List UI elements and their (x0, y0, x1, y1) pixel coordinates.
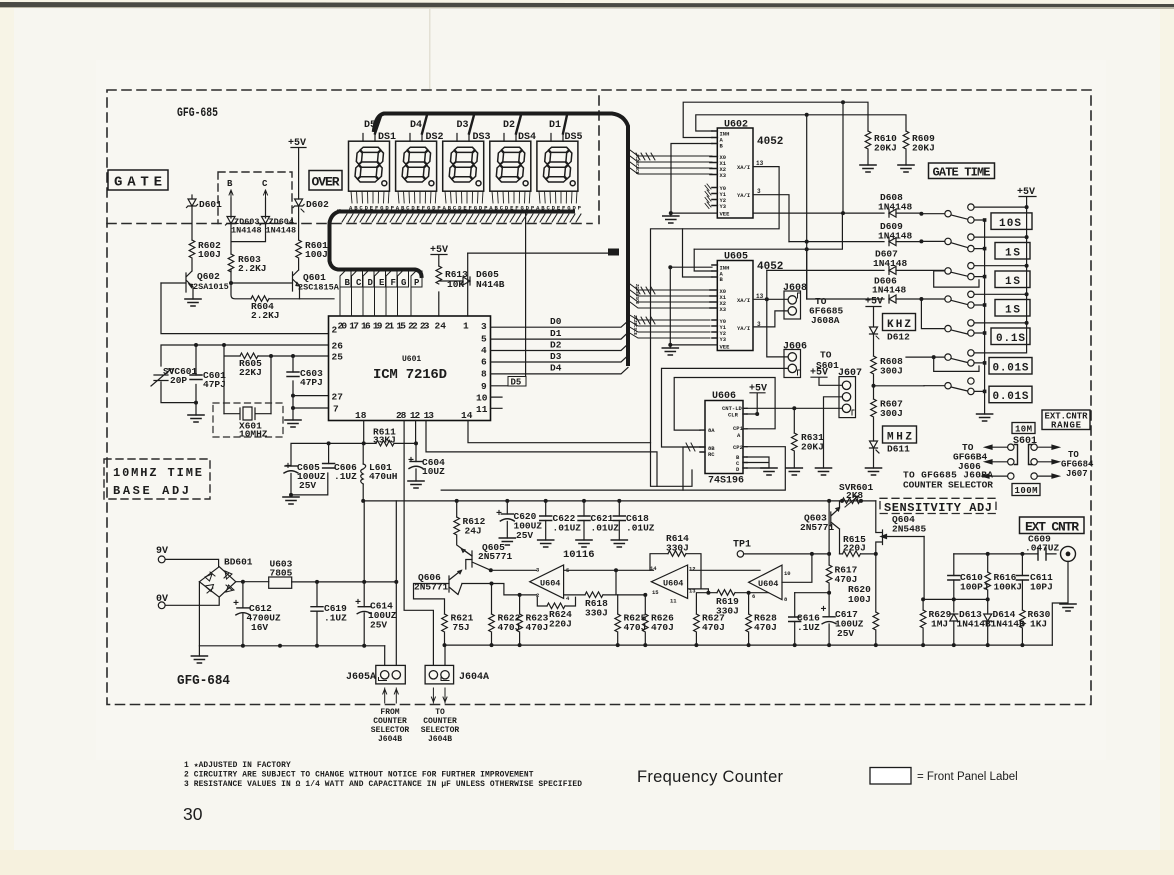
svg-text:D611: D611 (887, 444, 910, 455)
svg-text:1: 1 (463, 321, 469, 332)
svg-text:2.2KJ: 2.2KJ (238, 263, 267, 274)
switch 1S row (919, 234, 974, 252)
svg-text:4052: 4052 (757, 261, 783, 273)
svg-text:1S: 1S (1005, 247, 1020, 259)
svg-text:10S: 10S (999, 218, 1021, 230)
svg-text:GFG-685: GFG-685 (177, 106, 218, 120)
svg-text:TO: TO (435, 708, 445, 717)
svg-text:= Front Panel Label: = Front Panel Label (917, 771, 1018, 783)
resistor R631 (792, 408, 825, 468)
digit segment pin fans (351, 191, 577, 203)
wire into U604c upper (690, 569, 760, 571)
+5V to J607 pin1 (810, 368, 842, 386)
svg-text:300J: 300J (880, 366, 903, 377)
svg-text:4: 4 (481, 345, 487, 356)
svg-text:24J: 24J (465, 526, 482, 537)
label TO 6F6685 J608A (809, 296, 844, 326)
diode D614 (984, 599, 1025, 645)
svg-text:2N5485: 2N5485 (892, 524, 927, 535)
svg-text:RC: RC (708, 451, 715, 458)
svg-text:GFG684: GFG684 (1061, 460, 1094, 470)
svg-text:D3: D3 (550, 351, 562, 362)
wire U602 B pin from below (671, 144, 712, 214)
svg-text:25V: 25V (299, 480, 316, 491)
wire +5V to pin24 with R613 (430, 245, 463, 316)
svg-text:11: 11 (476, 404, 488, 415)
svg-text:DS4: DS4 (518, 132, 536, 143)
svg-text:FROM: FROM (380, 708, 399, 717)
svg-text:D4: D4 (410, 120, 422, 131)
resistor R623 (517, 593, 549, 645)
svg-text:KHZ: KHZ (887, 319, 911, 331)
wire U605 A pin (694, 249, 712, 271)
svg-text:24: 24 (435, 321, 447, 332)
segment bus (thick bottom) (330, 212, 574, 277)
svg-text:2.2KJ: 2.2KJ (251, 310, 280, 321)
wire B/C verticals (231, 198, 266, 299)
svg-text:X3: X3 (720, 172, 727, 179)
bus fan to U605 Y inputs (628, 314, 710, 338)
svg-text:U604: U604 (758, 579, 778, 589)
svg-text:25V: 25V (837, 628, 854, 639)
svg-text:20KJ: 20KJ (874, 143, 897, 154)
svg-text:300J: 300J (880, 408, 903, 419)
resistor R618 (564, 570, 646, 618)
svg-text:D601: D601 (199, 199, 222, 210)
transistor Q606 (414, 571, 537, 615)
transistor Q601 (229, 259, 340, 299)
svg-text:470uH: 470uH (369, 471, 398, 482)
svg-text:2SA1015: 2SA1015 (193, 282, 229, 292)
svg-text:3: 3 (481, 321, 487, 332)
svg-text:.1UZ: .1UZ (797, 622, 820, 633)
svg-text:U604: U604 (663, 579, 683, 589)
front panel label 10S (991, 213, 1032, 230)
svg-text:33KJ: 33KJ (373, 435, 396, 446)
svg-text:MHZ: MHZ (887, 432, 912, 444)
svg-text:0.1S: 0.1S (996, 333, 1025, 345)
svg-text:74S196: 74S196 (708, 476, 744, 487)
display digit DS5 (537, 132, 583, 191)
resistor R605 (239, 353, 262, 378)
front panel label KHZ (883, 314, 916, 332)
svg-text:20KJ: 20KJ (912, 143, 935, 154)
diode D605 (463, 269, 505, 290)
capacitor C616 (789, 591, 831, 645)
hatch marks U602 Y pins (705, 184, 711, 209)
svg-text:J607: J607 (838, 368, 862, 379)
svg-text:J604B: J604B (378, 735, 402, 744)
capacitor C605 (284, 462, 328, 497)
op-amp U604 a (530, 565, 570, 602)
resistor R628 (746, 591, 777, 645)
crystal X601 (213, 403, 283, 440)
EXT CNTR top wire (954, 553, 1023, 555)
wire U605 INH/VEE (670, 267, 717, 348)
svg-text:.1UZ: .1UZ (324, 613, 347, 624)
svg-text:XA/I: XA/I (737, 297, 750, 304)
svg-text:27: 27 (332, 392, 344, 403)
wire R608/R607 node to switch row (874, 385, 925, 387)
svg-text:25V: 25V (370, 620, 387, 631)
label TO GFG685 J60BA COUNTER SELECTOR (903, 470, 993, 491)
diode D611 (870, 441, 911, 468)
svg-text:D612: D612 (887, 332, 910, 343)
svg-text:15: 15 (652, 589, 659, 596)
front panel label 100M (1012, 484, 1040, 497)
op IC U601 ICM 7216D (329, 316, 491, 421)
+5V supply over D612 (865, 297, 883, 327)
svg-text:RANGE: RANGE (1051, 421, 1082, 431)
ground symbol supply (191, 656, 207, 663)
svg-text:TO: TO (820, 350, 832, 361)
zener ZD604 (260, 217, 296, 236)
svg-text:7: 7 (333, 404, 339, 415)
svg-text:D0: D0 (550, 316, 562, 327)
svg-text:J607: J607 (1066, 469, 1088, 479)
wire +5 feed up from C614 node (363, 501, 365, 582)
svg-text:SELECTOR: SELECTOR (371, 726, 410, 735)
B/C sense dashed box (218, 172, 292, 224)
transistor Q602 (161, 259, 229, 299)
svg-text:470J: 470J (702, 622, 725, 633)
wire U604c output up to TP1 line (782, 554, 812, 582)
resistor R619 (716, 590, 769, 617)
wire long rail y490 (441, 489, 683, 491)
svg-text:D1: D1 (550, 328, 562, 339)
svg-text:20KJ: 20KJ (801, 442, 824, 453)
node D5 boxed (491, 213, 527, 388)
svg-text:1S: 1S (1005, 304, 1020, 316)
svg-text:11: 11 (670, 598, 677, 605)
svg-text:B: B (227, 179, 233, 189)
resistor R617 (826, 554, 857, 617)
svg-text:J608: J608 (783, 283, 807, 294)
svg-text:10116: 10116 (563, 549, 595, 561)
wire pin18 to R611 (363, 421, 365, 444)
wire rail y114.8 (696, 115, 906, 131)
svg-text:U604: U604 (540, 579, 560, 589)
switch 0.1S row (921, 299, 974, 336)
wire J607 pin2 to ground (824, 397, 843, 468)
svg-text:330J: 330J (666, 543, 689, 554)
svg-text:XA/I: XA/I (737, 164, 750, 171)
svg-text:Frequency Counter: Frequency Counter (637, 768, 784, 786)
10MHZ TIME BASE ADJ dashed box (104, 459, 210, 499)
connector J608 (783, 283, 807, 319)
svg-text:TO: TO (1068, 450, 1079, 460)
wire y249.2 row (694, 213, 842, 249)
svg-text:D4: D4 (550, 363, 562, 374)
capacitor C612 (233, 582, 281, 646)
legend front panel box (870, 768, 911, 785)
diode D613 (950, 599, 991, 645)
diode D612 (870, 327, 911, 356)
svg-text:D602: D602 (306, 199, 329, 210)
svg-text:10MHZ TIME: 10MHZ TIME (113, 466, 202, 480)
J604A arrows down (431, 688, 447, 703)
supply ground rail (199, 646, 384, 656)
svg-text:1N4148: 1N4148 (873, 258, 908, 269)
BNC connector EXT CNTR (1052, 546, 1075, 645)
svg-text:9: 9 (481, 381, 487, 392)
svg-text:Y3: Y3 (720, 336, 727, 343)
svg-text:CP2: CP2 (733, 444, 743, 451)
EXT CNTR mid wire (923, 598, 988, 600)
svg-text:28 12 13: 28 12 13 (396, 410, 434, 421)
switch 0.01S row b (924, 378, 974, 395)
resistor R626 (643, 593, 675, 645)
svg-text:U605: U605 (724, 252, 748, 263)
svg-text:10M: 10M (1015, 425, 1032, 435)
resistor R621 (442, 613, 474, 646)
ground under C604 (408, 481, 424, 488)
svg-text:VEE: VEE (720, 344, 731, 351)
svg-text:DS5: DS5 (565, 132, 583, 143)
svg-text:20P: 20P (170, 375, 187, 386)
notes (184, 761, 582, 789)
wire U602 YA/I output (753, 195, 789, 242)
switch S 10S row (919, 204, 974, 223)
wire pin28 down (404, 421, 433, 666)
op IC U602 4052 (710, 120, 783, 219)
svg-text:YA/I: YA/I (737, 325, 750, 332)
wire J606 pin2 to 74S196 (662, 368, 789, 447)
wire pin25 net / R605 (224, 345, 329, 414)
svg-text:5: 5 (481, 334, 487, 345)
svg-text:C: C (356, 278, 362, 288)
svg-text:470J: 470J (498, 622, 521, 633)
GFG-685 module boundary (dashed) (107, 90, 1091, 705)
wire J604A pin2 to amp rail (444, 645, 446, 665)
connector J605A (346, 665, 405, 684)
svg-text:3: 3 (757, 188, 761, 195)
inductor L601 (361, 462, 398, 503)
svg-text:22KJ: 22KJ (239, 367, 262, 378)
svg-text:9V: 9V (156, 546, 168, 557)
capacitor C617 (821, 605, 864, 645)
display section boundary (dashed) (107, 96, 599, 224)
amp bottom rail (445, 644, 1053, 646)
transistor Q604 JFET (874, 501, 927, 556)
J605A arrows down (383, 688, 399, 703)
op IC U606 (700, 391, 747, 487)
svg-text:100M: 100M (1015, 486, 1038, 496)
svg-text:100KJ: 100KJ (994, 582, 1023, 593)
U606 loop 8B-CP2 via bottom (683, 447, 785, 490)
wire U605 XA/I output to J608/J606 (753, 270, 792, 357)
svg-text:TP1: TP1 (733, 540, 751, 551)
svg-text:8A: 8A (708, 427, 715, 434)
wire Q605 emitter node (491, 569, 537, 571)
diode D608 (753, 192, 921, 217)
feedback resistor R624 (537, 597, 575, 629)
svg-text:1MJ: 1MJ (931, 619, 948, 630)
segment letter row (A-G,DP marks) (349, 205, 579, 210)
diode D602 (293, 199, 329, 240)
svg-text:J604B: J604B (428, 735, 452, 744)
wire pin13 down right (426, 421, 657, 487)
ground under Q602 (185, 299, 201, 306)
svg-text:6: 6 (752, 593, 755, 600)
resistor R610 (865, 131, 897, 165)
front panel label EXT CNTR (1020, 517, 1085, 535)
wire top rail y102 (683, 102, 868, 137)
svg-text:SELECTOR: SELECTOR (421, 726, 460, 735)
svg-text:1 ★ADJUSTED IN FACTORY: 1 ★ADJUSTED IN FACTORY (184, 761, 291, 770)
svg-text:18: 18 (355, 410, 367, 421)
diode D607 (767, 249, 948, 275)
wire Q601 emitter stub (300, 298, 335, 300)
label TO GFG6B4 J606 (953, 442, 988, 472)
diode D609 (789, 221, 921, 246)
ground under switch bank (977, 414, 993, 421)
svg-text:U602: U602 (724, 120, 748, 131)
scan crease line (429, 9, 431, 89)
svg-text:D3: D3 (457, 120, 469, 131)
wire C603 to pins 27/7 and ground (293, 381, 329, 420)
svg-text:N414B: N414B (476, 279, 505, 290)
svg-text:F: F (391, 278, 396, 288)
svg-text:COUNTER SELECTOR: COUNTER SELECTOR (903, 480, 993, 491)
svg-text:D2: D2 (503, 120, 515, 131)
svg-text:10: 10 (476, 393, 488, 404)
svg-text:G: G (401, 278, 406, 288)
capacitor C614 (355, 582, 397, 646)
test point TP1 (733, 540, 829, 558)
pin10/11 stubs (491, 397, 503, 408)
bridge rectifier BD601 (199, 557, 268, 646)
svg-text:Y3: Y3 (720, 203, 727, 210)
display digit DS3 (443, 132, 491, 191)
connector J606 (783, 342, 807, 378)
svg-text:14: 14 (461, 410, 473, 421)
digit select labels D5 D4 D3 D2 D1 (364, 120, 561, 131)
svg-text:.01UZ: .01UZ (553, 523, 582, 534)
hatch under segment bus (342, 214, 581, 222)
wire U605 B pin (683, 229, 713, 277)
svg-text:U601: U601 (402, 355, 421, 364)
resistor R609 (903, 131, 935, 165)
svg-text:1N414B: 1N414B (957, 619, 992, 630)
filter top rail (291, 443, 416, 466)
front panel label 0.01S b (989, 386, 1032, 403)
+5V rail for gate time switches (974, 187, 1036, 353)
resistor R602 (189, 240, 221, 260)
GATE front panel label (108, 170, 168, 191)
wire R604 to Q601 base (270, 298, 300, 300)
svg-text:.01UZ: .01UZ (626, 523, 655, 534)
svg-text:BD601: BD601 (224, 557, 253, 568)
ground under U605 VEE (662, 348, 678, 355)
digit select stubs from top bus (375, 115, 567, 134)
scan top edge bar (0, 2, 1174, 7)
svg-text:100J: 100J (848, 594, 871, 605)
svg-text:10K: 10K (447, 279, 464, 290)
svg-text:26: 26 (332, 341, 344, 352)
ground under R631 (786, 468, 802, 475)
display digit DS4 (490, 132, 536, 191)
wire J605A pin2 up (395, 501, 397, 666)
svg-text:0V: 0V (156, 594, 168, 605)
svg-text:.01UZ: .01UZ (591, 523, 620, 534)
connector J604A (425, 665, 489, 684)
capacitor C606 (323, 462, 358, 482)
svg-text:U606: U606 (712, 391, 736, 402)
svg-text:GFG-684: GFG-684 (177, 673, 230, 689)
sensitivity adj dashed box (880, 498, 996, 515)
wire U605 YA/I output to J608 pin2 (753, 311, 788, 327)
capacitor C604 (408, 456, 445, 481)
label TO COUNTER SELECTOR J604B (421, 708, 460, 744)
svg-text:4052: 4052 (757, 136, 783, 148)
svg-text:COUNTER: COUNTER (373, 717, 407, 726)
front panel label EXT.CNTR RANGE (1042, 410, 1090, 431)
wire pin14 down right (468, 421, 651, 443)
svg-text:25V: 25V (516, 530, 533, 541)
svg-text:2N5771: 2N5771 (478, 551, 513, 562)
svg-text:OVER: OVER (312, 175, 340, 190)
capacitor C621 (578, 501, 619, 540)
wire U601 pin26 net (161, 345, 329, 415)
switch 1S row b (934, 263, 979, 288)
connector J607 (838, 368, 862, 418)
switch S601 (1008, 436, 1038, 479)
svg-text:GATE TIME: GATE TIME (933, 166, 991, 180)
svg-text:7805: 7805 (270, 568, 293, 579)
label TO GFG684 J607 (1061, 450, 1094, 479)
bus fan to U602 inputs (630, 150, 712, 174)
svg-text:1N4148: 1N4148 (878, 231, 913, 242)
svg-text:1N4148: 1N4148 (266, 226, 297, 236)
front panel label 1S c (995, 300, 1030, 317)
ground under D611 (866, 468, 882, 475)
op-amp U604 c (749, 565, 791, 603)
svg-text:J605A: J605A (346, 672, 376, 683)
svg-text:DS3: DS3 (473, 132, 491, 143)
svg-text:47PJ: 47PJ (203, 379, 226, 390)
svg-text:1N4148: 1N4148 (231, 226, 262, 236)
svg-text:1S: 1S (1005, 276, 1020, 288)
bus fan to U605 X inputs (630, 284, 710, 308)
transistor Q605 (462, 542, 513, 570)
OVER front panel label (309, 171, 342, 191)
resistor R611 (373, 427, 396, 447)
svg-text:E: E (379, 278, 385, 288)
svg-text:470J: 470J (651, 622, 674, 633)
resistor R612 (454, 501, 486, 556)
trimmer SVR601 (839, 482, 874, 507)
svg-text:220J: 220J (843, 543, 866, 554)
svg-text:D5: D5 (511, 378, 522, 388)
wire pin1 to bus tap (468, 253, 608, 316)
ground under U602 VEE wire (663, 216, 679, 223)
GATE TIME front panel label (929, 163, 995, 180)
ground under C603 (285, 420, 301, 427)
resistor R622 (489, 582, 521, 646)
capacitor C619 (311, 582, 347, 646)
node C arrow (262, 179, 268, 198)
capacitor C622 (540, 501, 582, 540)
front panel label 10M (1012, 423, 1035, 435)
svg-text:0.01S: 0.01S (993, 391, 1029, 403)
capacitor C609 (1022, 534, 1059, 561)
capacitor C601 (190, 370, 226, 390)
svg-text:330J: 330J (585, 608, 608, 619)
capacitor C618 (613, 501, 655, 540)
resistor R630 (1020, 609, 1051, 645)
front panel label MHZ (883, 426, 917, 444)
